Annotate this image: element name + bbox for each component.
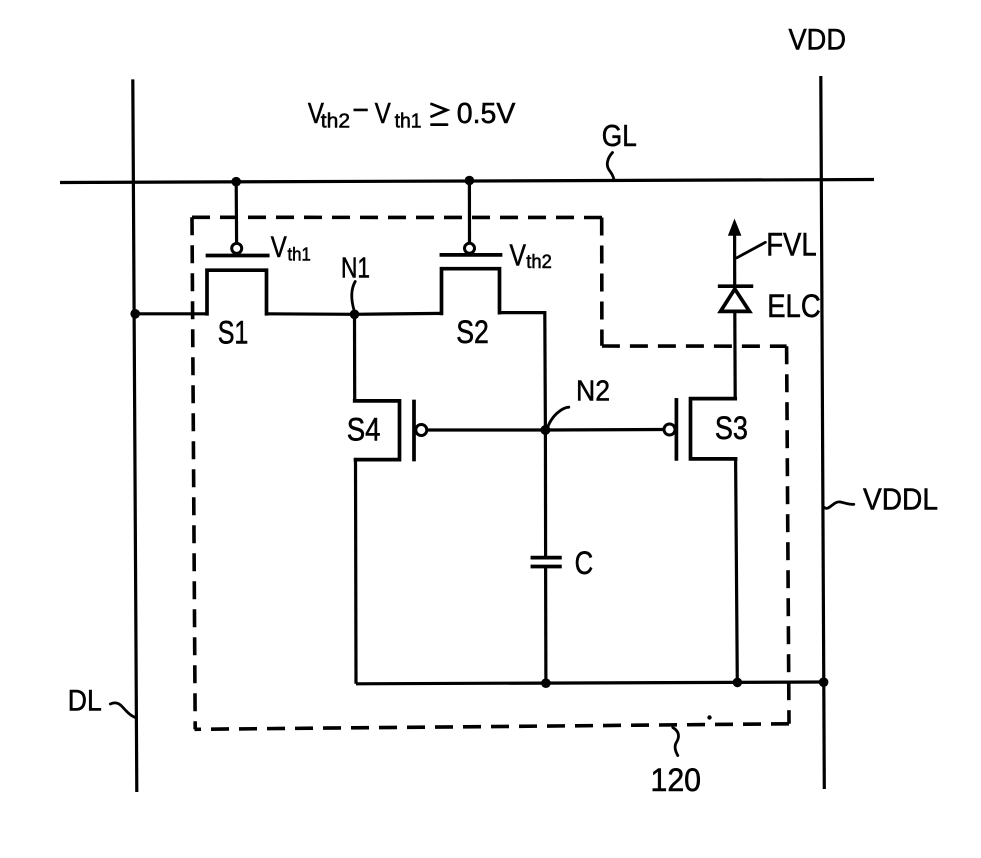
transistor S3 gate bar bbox=[675, 400, 679, 459]
wire S3 source leg down to rail bbox=[736, 459, 738, 683]
transistor S4 gate bar bbox=[412, 402, 416, 460]
label 120 bbox=[651, 762, 702, 798]
leader squiggle DL bbox=[110, 703, 136, 718]
svg-text:DL: DL bbox=[68, 685, 102, 718]
svg-text:S3: S3 bbox=[715, 410, 748, 446]
svg-text:N1: N1 bbox=[341, 253, 370, 285]
label C bbox=[575, 545, 594, 581]
transistor S1 channel hat bbox=[207, 270, 267, 314]
svg-text:VDDL: VDDL bbox=[863, 482, 938, 517]
svg-text:120: 120 bbox=[651, 762, 702, 798]
junction dot S3 on rail bbox=[733, 678, 743, 688]
label VDDL bbox=[863, 482, 938, 517]
formula Vth2-Vth1 >= 0.5V bbox=[308, 95, 516, 133]
svg-text:th1: th1 bbox=[288, 243, 311, 264]
wire S2 gate to GL bbox=[468, 181, 471, 244]
transistor S3 channel bbox=[691, 399, 736, 459]
svg-text:V: V bbox=[271, 231, 287, 264]
wire S1 drain to node N1 bbox=[267, 312, 355, 316]
junction dot capacitor on rail bbox=[541, 678, 551, 688]
FVL arrowhead bbox=[728, 219, 742, 236]
dashed boundary upper right edge bbox=[600, 218, 604, 346]
transistor S2 channel hat bbox=[442, 269, 500, 314]
label S1 bbox=[218, 315, 249, 351]
dashed boundary lower right edge bbox=[787, 346, 789, 724]
wire DL data line vertical bbox=[133, 79, 137, 792]
junction dot S1 gate on GL bbox=[231, 177, 241, 187]
wire bottom rail bbox=[356, 682, 824, 684]
transistor S4 channel bbox=[355, 401, 400, 460]
S1 gate contact circle bbox=[232, 243, 242, 253]
wire VDD line vertical bbox=[821, 76, 825, 789]
label Vth1 bbox=[271, 231, 311, 265]
svg-text:V: V bbox=[375, 98, 392, 130]
dashed pixel boundary top edge bbox=[192, 216, 603, 220]
label S2 bbox=[456, 314, 489, 350]
label S4 bbox=[347, 411, 381, 447]
label ELC bbox=[767, 288, 821, 324]
svg-text:S2: S2 bbox=[456, 314, 489, 350]
junction dot N1 bbox=[350, 310, 360, 320]
wire capacitor top bbox=[544, 430, 547, 557]
wire DL to S1 source bbox=[135, 312, 208, 315]
leader squiggle N1 bbox=[352, 282, 355, 312]
capacitor C plates bbox=[532, 558, 560, 567]
wire S3 drain up to diode bbox=[733, 313, 737, 401]
label S3 bbox=[715, 410, 748, 446]
leader squiggle GL bbox=[607, 153, 614, 180]
S4 gate contact circle bbox=[416, 425, 427, 436]
leader line FVL bbox=[737, 242, 766, 257]
node N2 label bbox=[576, 375, 610, 407]
svg-text:th1: th1 bbox=[395, 111, 422, 133]
wire N1 to S2 source bbox=[355, 312, 443, 316]
wire diode to arrow bbox=[733, 234, 736, 286]
leader squiggle N2 bbox=[547, 407, 569, 429]
S3 gate contact circle bbox=[664, 424, 675, 435]
label Vth2 bbox=[510, 237, 552, 273]
wire S2 drain step bbox=[500, 313, 546, 430]
svg-text:C: C bbox=[575, 545, 594, 581]
svg-text:ELC: ELC bbox=[767, 288, 821, 324]
wire S1 gate to GL bbox=[235, 182, 239, 244]
svg-text:V: V bbox=[510, 237, 527, 272]
svg-text:th2: th2 bbox=[321, 111, 350, 133]
label DL bbox=[68, 685, 102, 718]
transistor S2 gate bar bbox=[441, 253, 500, 257]
svg-text:VDD: VDD bbox=[789, 24, 847, 57]
dashed boundary bottom edge bbox=[195, 724, 790, 730]
junction dot DL row bbox=[130, 309, 140, 319]
svg-text:S4: S4 bbox=[347, 411, 381, 447]
wire GL gate line horizontal bbox=[60, 180, 874, 183]
dashed boundary mid horizontal bbox=[602, 344, 787, 348]
svg-text:GL: GL bbox=[602, 118, 637, 153]
wire S4 source leg down to rail bbox=[354, 460, 358, 684]
junction dot rail on VDDL bbox=[819, 677, 829, 687]
label VDD bbox=[789, 24, 847, 57]
diode ELC triangle bbox=[721, 289, 750, 311]
node N1 label bbox=[341, 253, 370, 285]
diode ELC cathode bar bbox=[720, 284, 752, 288]
leader squiggle VDDL bbox=[824, 502, 854, 509]
S2 gate contact circle bbox=[465, 243, 475, 253]
junction dot N2 bbox=[540, 425, 550, 435]
stray dot mark bbox=[707, 715, 711, 719]
svg-text:FVL: FVL bbox=[766, 226, 817, 262]
svg-text:N2: N2 bbox=[576, 375, 610, 407]
svg-text:S1: S1 bbox=[218, 315, 249, 351]
junction dot S2 gate on GL bbox=[465, 176, 475, 186]
svg-text:−: − bbox=[352, 95, 369, 127]
wire N2 to S3 gate bbox=[545, 428, 664, 432]
label GL bbox=[602, 118, 637, 153]
leader squiggle 120 bbox=[673, 728, 679, 756]
label FVL bbox=[766, 226, 817, 262]
dashed boundary left edge bbox=[192, 217, 195, 729]
svg-text:th2: th2 bbox=[526, 252, 552, 273]
wire S4 gate to N2 bbox=[427, 428, 546, 431]
wire N1 down to S4 bbox=[353, 314, 356, 402]
wire capacitor bottom bbox=[544, 566, 548, 683]
transistor S1 gate bar bbox=[208, 254, 268, 258]
svg-text:0.5V: 0.5V bbox=[457, 98, 516, 130]
